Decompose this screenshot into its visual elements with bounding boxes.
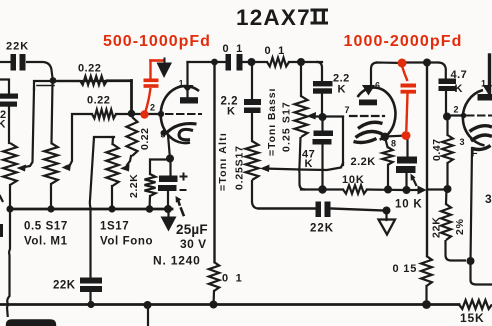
svg-text:7: 7	[345, 105, 351, 115]
svg-text:12AX7: 12AX7	[236, 5, 311, 30]
capacitor toni alti	[244, 99, 261, 105]
wire 0.15 to bottom bus	[425, 286, 427, 305]
svg-text:0.22: 0.22	[139, 128, 151, 150]
capacitor 47K	[321, 117, 323, 131]
resistor 0.22 second	[92, 110, 116, 119]
wire branch down x148	[147, 305, 149, 326]
wire node A down to pot Vol Fono	[52, 82, 53, 143]
capacitor 4.7K	[439, 79, 457, 85]
wire top B right	[402, 61, 438, 63]
minus mark 25uF	[181, 189, 186, 191]
junction grid envelope V3	[461, 113, 467, 119]
wire corner to 2.2K cap	[316, 62, 322, 82]
svg-text:25µF: 25µF	[176, 222, 208, 237]
svg-text:2.2K: 2.2K	[351, 156, 376, 168]
triode V3 cathode	[470, 126, 492, 132]
wire feed x214	[213, 62, 215, 262]
svg-text:10 K: 10 K	[395, 199, 423, 211]
wire cap to pot Vol.M1	[8, 107, 10, 144]
red dot grid V1	[140, 110, 148, 118]
red capacitor C2	[402, 66, 408, 81]
wiper arrow Vol.M1	[17, 165, 27, 172]
wire R1 to corner drop	[107, 79, 132, 81]
junction pot M1 bus	[6, 205, 13, 212]
triode V3 cathode2	[471, 135, 492, 141]
svg-text:3: 3	[485, 192, 492, 206]
capacitor 25uF electrolytic	[169, 159, 171, 177]
plus mark 25uF	[181, 176, 187, 178]
edge mark left 1	[0, 196, 3, 201]
svg-text:22K: 22K	[53, 280, 76, 292]
wire corner to 4.7K cap	[438, 63, 446, 80]
ground symbol red cap	[157, 63, 173, 79]
resistor 15K	[459, 300, 492, 309]
junction cathode V3 node	[467, 257, 475, 265]
wiper wire Vol.M1	[22, 88, 34, 168]
resistor 0.15	[421, 256, 432, 286]
svg-text:Vol Fono: Vol Fono	[100, 236, 153, 248]
wire pot Fono to bus	[50, 184, 52, 209]
wire toni alti cap	[251, 62, 253, 99]
resistor 1S17 divider	[111, 137, 114, 144]
wire pot alti to bus right	[252, 180, 259, 209]
svg-text:0.22: 0.22	[87, 95, 110, 107]
svg-text:10K: 10K	[342, 174, 365, 186]
wire stub double	[37, 85, 54, 87]
svg-text:2: 2	[150, 103, 156, 113]
junction R 1S17 bus	[108, 205, 115, 212]
potentiometer Vol Fono	[44, 143, 58, 184]
wire cap to pot alti	[251, 113, 253, 141]
svg-text:2: 2	[454, 105, 460, 115]
svg-text:0.25 S17: 0.25 S17	[281, 101, 293, 152]
feedback drop wire	[90, 137, 94, 278]
triode V1 cathode lead	[168, 135, 170, 159]
junction 25uF bus	[164, 205, 172, 213]
svg-text:1S17: 1S17	[100, 221, 129, 233]
wire grid drop x343	[342, 117, 344, 165]
junction V2 cathode node	[381, 133, 389, 141]
junction grid V3 node	[443, 113, 451, 121]
svg-text:0.47: 0.47	[431, 139, 443, 161]
node A junction	[50, 77, 57, 84]
triode V1 grid dashes	[166, 113, 201, 115]
svg-text:1: 1	[179, 78, 184, 88]
wire input left to 22K cap	[0, 61, 11, 63]
svg-text:8: 8	[391, 139, 397, 149]
triode V3 plate lead	[488, 55, 491, 94]
svg-text:0 1: 0 1	[222, 273, 244, 285]
junction bottom bus x148	[144, 301, 152, 309]
svg-text:0 1: 0 1	[265, 45, 287, 57]
feedback tee wire	[94, 136, 114, 138]
connector jack bottom	[7, 321, 55, 326]
svg-text:Vol. M1: Vol. M1	[24, 236, 68, 248]
potentiometer Vol.M1	[3, 143, 17, 185]
triode V2 cathode	[358, 122, 383, 128]
svg-text:K: K	[0, 119, 6, 131]
wire wiper line1	[299, 163, 343, 170]
wire input stub lower	[0, 80, 9, 95]
capacitor 22K feedback	[80, 278, 102, 284]
wiper arrow to R 1S17	[127, 156, 131, 165]
wire 22K cap to bottom bus	[89, 292, 91, 305]
junction grid node	[128, 110, 136, 118]
resistor 10K	[343, 185, 367, 193]
wire toni bassi top	[300, 62, 302, 96]
junction 47K bus2	[318, 185, 326, 193]
svg-text:K: K	[338, 84, 346, 96]
triode V3 grid dashes	[467, 115, 492, 117]
svg-text:0 1: 0 1	[223, 43, 245, 55]
svg-text:1: 1	[481, 79, 487, 89]
svg-text:2.2K: 2.2K	[128, 174, 140, 198]
title II roman	[311, 9, 329, 25]
junction grid envelope V1	[158, 111, 164, 117]
resistor 2.2K cathode V2	[385, 137, 388, 147]
svg-text:0.22: 0.22	[78, 63, 101, 75]
arrow into feed line	[418, 186, 427, 195]
capacitor 22K series	[316, 202, 322, 218]
svg-text:22K: 22K	[431, 216, 443, 238]
svg-text:6: 6	[375, 81, 381, 91]
ground symbol open	[385, 211, 387, 221]
annotation arrow 10K cap	[412, 177, 417, 186]
svg-text:500-1000pFd: 500-1000pFd	[103, 33, 211, 50]
triode V1 envelope	[161, 86, 199, 143]
capacitor 2.2K tone	[313, 81, 333, 86]
resistor 0.1 feed	[209, 262, 219, 291]
triode V3 heater	[473, 146, 491, 150]
junction V2 cathode bus	[384, 186, 392, 194]
wire y189 to arrow	[411, 189, 421, 191]
junction B+ tap	[211, 59, 218, 66]
resistor 0.1M	[267, 58, 289, 67]
wire pot bassi bottom	[299, 137, 305, 190]
annotation arrow 25uF	[181, 209, 184, 216]
triode V3 cathode lead	[471, 148, 473, 261]
svg-text:K: K	[305, 158, 313, 170]
wire feed x427	[426, 63, 428, 257]
capacitor 10K	[397, 157, 417, 164]
wire R2 right grid	[116, 113, 160, 115]
wire y189 right	[428, 188, 448, 190]
junction 0.15 bottom bus	[422, 300, 431, 309]
wire vol M1 down	[7, 209, 10, 317]
svg-text:0 15: 0 15	[393, 263, 418, 275]
capacitor 22K top-left	[11, 54, 17, 71]
svg-text:2%: 2%	[454, 218, 466, 235]
junction toni alti tap	[243, 61, 268, 63]
bus right segment	[259, 207, 316, 209]
triode V2 envelope	[358, 88, 396, 140]
wire plate V2 top	[377, 61, 402, 64]
junction 22K bottom bus	[87, 301, 94, 308]
resistor 22K 2pct	[445, 189, 448, 204]
wire pot M1 to bus	[9, 185, 11, 209]
triode V2 grid dashes	[350, 115, 384, 117]
svg-text:22K: 22K	[310, 223, 334, 235]
triode V2 plate	[362, 85, 375, 96]
triode V1 heater curl	[179, 129, 193, 139]
wire R2 left to wiper Fono	[66, 114, 92, 167]
potentiometer Toni Bassi	[295, 96, 308, 137]
svg-text:1000-2000pFd: 1000-2000pFd	[344, 33, 463, 50]
junction pot Fono bus	[47, 205, 54, 212]
wire cathode to 10K cap	[385, 136, 408, 158]
wire grid V3	[447, 114, 463, 116]
triode V2 cathode2	[356, 131, 385, 137]
svg-text:15K: 15K	[460, 311, 484, 325]
wiper arrow Vol Fono	[62, 164, 72, 172]
junction 0.47 bus	[444, 185, 452, 193]
red dot cathode V2 wire	[402, 131, 411, 140]
triode V3 envelope	[463, 90, 485, 146]
junction feed bottom bus	[210, 301, 218, 309]
potentiometer Toni Alti	[246, 141, 259, 180]
wire cathode V3 down	[471, 261, 492, 285]
svg-text:0.25S17: 0.25S17	[234, 145, 246, 190]
resistor 2.2K cathode V1	[150, 160, 170, 175]
triode V1 plate	[182, 85, 194, 92]
wiper arrow Toni Alti	[264, 169, 299, 170]
junction cathode envelope V1	[161, 130, 167, 136]
svg-text:3: 3	[460, 137, 466, 147]
junction 10Kcap bus	[403, 186, 411, 194]
wire 22K cap to node A	[26, 62, 53, 78]
junction 2.2K bus	[146, 205, 154, 213]
triode V2 plate lead	[371, 63, 378, 86]
ground symbol main	[167, 211, 169, 217]
triode V1 cathode	[166, 124, 197, 134]
wire feed to bottom bus	[212, 291, 215, 305]
svg-text:=Tonı Bassı: =Tonı Bassı	[266, 88, 278, 156]
bus ground left	[10, 208, 172, 211]
svg-text:0.5 S17: 0.5 S17	[24, 221, 68, 233]
junction bus right end	[383, 207, 391, 215]
bus right continue	[331, 209, 384, 211]
junction toni bassi tap	[289, 61, 322, 63]
svg-text:N. 1240: N. 1240	[153, 254, 201, 268]
wire corner y80	[34, 81, 132, 90]
svg-text:4.7: 4.7	[451, 69, 468, 81]
svg-text:30 V: 30 V	[180, 237, 207, 251]
triode V3 plate	[483, 85, 492, 95]
red capacitor C1	[144, 79, 159, 83]
resistor 0.47	[446, 117, 448, 136]
svg-text:K: K	[455, 83, 463, 95]
junction feed 427 top	[423, 59, 431, 67]
capacitor 0.1 coupling	[226, 54, 232, 71]
wire y189 mid	[367, 188, 402, 191]
bottom bus	[0, 303, 459, 306]
triode V2 heater	[354, 139, 377, 143]
svg-text:22K: 22K	[6, 41, 29, 53]
red dot plate V2 wire	[398, 59, 407, 68]
wire plate V1 top	[188, 61, 227, 63]
triode V1 plate lead	[186, 62, 188, 86]
capacitor input left edge	[0, 94, 18, 99]
edge mark left 2	[0, 224, 3, 237]
resistor 0.22 first	[57, 80, 80, 82]
junction cathode node	[166, 155, 174, 163]
wiper arrow Toni Bassi	[311, 115, 343, 117]
svg-text:=Tonı Altı: =Tonı Altı	[217, 132, 229, 191]
wire y189 left	[301, 188, 343, 190]
junction 47K cap grid	[319, 113, 327, 121]
svg-text:K: K	[227, 106, 235, 118]
resistor 0.22 grid leak	[127, 117, 138, 156]
